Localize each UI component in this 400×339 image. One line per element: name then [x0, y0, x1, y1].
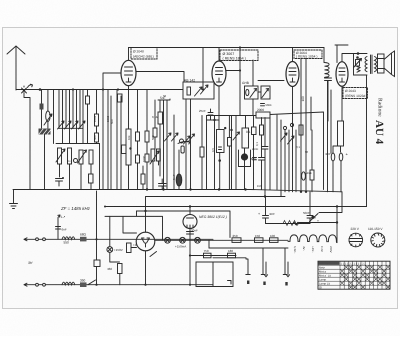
dial selector 220V	[349, 233, 363, 247]
table row lines	[318, 265, 390, 285]
tuning gang capacitor section 1 plates	[59, 90, 70, 144]
node	[117, 88, 119, 90]
wire column x306	[305, 59, 307, 192]
resistor grid V1	[122, 145, 127, 154]
transformer tap mark	[228, 281, 232, 285]
transformer core	[371, 55, 373, 74]
lamp scale 1	[165, 237, 171, 243]
wire column x214	[214, 116, 216, 190]
wire V1 anode to rail	[128, 48, 130, 61]
node	[189, 205, 191, 207]
terminal circle a	[36, 238, 39, 241]
wire column x327	[327, 81, 329, 192]
resistor 500 column x147 upper	[145, 131, 149, 142]
coil column x137 lower	[136, 155, 140, 163]
wire ant coupling	[24, 93, 30, 190]
wire chassis bus 1	[13, 190, 342, 192]
node	[189, 284, 191, 286]
trimmer arrow AB142 b	[201, 85, 209, 94]
trimmer arrow box B	[262, 89, 269, 98]
dial selector 110-150V	[371, 233, 385, 247]
lamp scale 3	[195, 237, 201, 243]
resistor heater bus 100	[270, 238, 279, 243]
connection table frame	[318, 261, 390, 289]
wire column x167	[166, 100, 168, 190]
node	[336, 205, 338, 207]
capacitor C-ant trimmer X	[22, 86, 27, 93]
trimmer arrow L-ant	[44, 114, 52, 125]
node	[102, 88, 104, 90]
wire filter link	[266, 223, 311, 225]
terminal circle c	[36, 283, 39, 286]
pin terminal a	[246, 274, 250, 276]
node loop	[356, 56, 359, 59]
knob dot	[241, 153, 248, 160]
trimmer arrow gang 2	[65, 121, 72, 129]
wire IF2 to bus	[81, 164, 91, 190]
wire column x231	[231, 116, 233, 190]
table column lines	[340, 261, 386, 289]
wire column x331	[330, 90, 332, 153]
coil inside box A	[246, 89, 249, 95]
node	[264, 195, 266, 197]
wire can to bus	[219, 153, 221, 190]
resistor x253	[252, 127, 257, 135]
trimmer arrow tone	[354, 59, 362, 68]
trimmer arrow x190	[188, 134, 195, 142]
switch heater	[150, 252, 157, 257]
wire column x160	[159, 100, 161, 176]
resistor 350 bottom	[80, 282, 87, 287]
node	[189, 254, 191, 256]
arrow agc	[178, 141, 190, 144]
resistor column x155	[153, 128, 157, 137]
pot bracket	[239, 150, 251, 167]
trimmer arrow IF2	[78, 150, 87, 163]
node	[244, 188, 246, 190]
wire to fuse corner	[270, 112, 324, 190]
resistor anode V1	[126, 129, 131, 165]
wire pin feed	[213, 258, 248, 275]
coil IF2 primary	[79, 150, 83, 164]
wire volume to bus	[245, 116, 246, 190]
socket dot c	[285, 282, 287, 286]
wire rect top feed	[137, 211, 231, 238]
wire heater tap	[105, 211, 163, 240]
wire input coil drops	[42, 90, 54, 144]
transformer primary coil	[365, 57, 367, 72]
node bus3 left	[104, 206, 106, 208]
wire gang section link	[59, 127, 83, 129]
label box V1	[131, 48, 157, 60]
capacitor 20nF barretter	[187, 232, 194, 235]
wire column x121	[120, 96, 122, 190]
resistor 0.1M x261	[260, 125, 264, 135]
wire LS stub	[58, 215, 60, 239]
node	[239, 46, 241, 48]
wire heater secondary	[190, 240, 236, 255]
tube V4 electrodes	[339, 68, 345, 82]
node	[129, 147, 131, 149]
wire mid distribution	[207, 115, 257, 117]
wire osc coil	[96, 90, 98, 144]
wire tap line	[209, 247, 288, 249]
coil IF3 secondary	[157, 149, 161, 161]
node grid cap2	[290, 123, 293, 126]
trimmer arrow gang 4	[79, 121, 86, 129]
resistor tone	[356, 60, 360, 67]
bandfilter box A	[245, 86, 259, 99]
wire V4 anode to output	[342, 54, 354, 62]
node	[144, 210, 146, 212]
node output junction	[357, 52, 360, 55]
wire input bus	[28, 89, 203, 91]
speaker cone	[384, 51, 395, 77]
capacitor electrolytic 4mF b	[339, 153, 343, 161]
terminal circle d	[43, 283, 46, 286]
wire heater chain	[155, 239, 213, 241]
resistor x301	[299, 125, 303, 135]
wire bandfilter link	[253, 60, 261, 116]
trimmer arrow x174	[172, 133, 179, 141]
label box V4	[343, 88, 368, 99]
dial 110 teeth	[371, 233, 385, 247]
trimmer arrow IF1	[56, 149, 65, 162]
wire V4 grid stub	[335, 45, 348, 63]
wire column x296	[295, 130, 297, 192]
node	[95, 284, 97, 286]
lamp pilot left	[107, 247, 113, 253]
trimmer disc	[180, 139, 184, 143]
wire caps to bus	[333, 146, 341, 192]
capacitor electrolytic 4mF c	[302, 172, 306, 180]
wire V3 grid lead	[258, 80, 284, 82]
trimmer arrow x186	[184, 136, 191, 144]
lamp cross	[181, 238, 185, 242]
wire V3 anode to rail	[292, 48, 294, 62]
pin pair c	[283, 248, 289, 277]
node C-ant	[23, 89, 25, 91]
wire can leads	[178, 150, 180, 190]
tube V1 envelope	[121, 60, 136, 85]
plate load loop	[354, 54, 368, 76]
resistor 68ohm top	[80, 237, 87, 242]
wire lamp feed	[110, 216, 120, 262]
pin pair b	[261, 248, 267, 277]
node	[300, 191, 302, 193]
coil IF2 secondary	[89, 150, 93, 164]
wire column x270	[269, 118, 271, 190]
socket dot a	[247, 281, 249, 285]
wire top HT rail	[129, 47, 325, 49]
capacitor 20nF x261	[259, 158, 265, 190]
wire column x236	[235, 116, 237, 190]
wire speaker return	[366, 75, 368, 207]
wire V1 grid lead	[136, 72, 184, 83]
wire IF3 down	[153, 161, 159, 190]
coil column x137 upper	[136, 132, 140, 141]
resistor 2000	[256, 112, 270, 118]
wire column x311	[310, 97, 312, 130]
wire resistor to cap	[340, 146, 342, 152]
node	[95, 238, 97, 240]
node	[218, 159, 221, 162]
trimmer arrow x167	[165, 133, 172, 141]
wire column x155	[154, 100, 156, 149]
trimmer arrow x236	[233, 132, 240, 140]
coil core blob	[39, 129, 51, 135]
resistor 750b	[204, 253, 212, 258]
lamp cross	[196, 238, 200, 242]
switch mains	[88, 280, 96, 285]
curved arrow ant	[28, 84, 33, 87]
capacitor electrolytic left	[56, 179, 63, 187]
wire column x117	[116, 90, 118, 190]
wire column x289	[288, 130, 290, 192]
wire column x261	[261, 118, 263, 158]
wire column x253	[253, 116, 255, 190]
node	[213, 119, 215, 121]
tube V2 electrodes	[216, 68, 223, 83]
tube V3 envelope	[286, 62, 299, 87]
trimmer arrow x290	[288, 136, 295, 144]
tube V1 electrodes	[125, 67, 133, 82]
resistor x202	[200, 147, 204, 157]
wire selector riser	[336, 207, 338, 243]
capacitor small x254	[253, 158, 257, 160]
wire antenna lead	[16, 89, 33, 91]
node	[62, 177, 64, 179]
wire V4 cathode down	[341, 86, 343, 121]
wire V3 cathode down	[292, 87, 294, 192]
resistor ant	[40, 104, 44, 110]
label box V2	[220, 50, 258, 61]
resistor 180	[228, 253, 236, 258]
node	[239, 69, 241, 71]
coil core hatch	[39, 129, 51, 135]
wire 5nF branch	[158, 99, 170, 100]
wire column x147	[146, 90, 148, 190]
resistor top x119	[118, 94, 123, 102]
wire grid cap tube V1	[103, 73, 121, 90]
ground lead	[13, 190, 15, 204]
wire choke top	[323, 48, 325, 63]
bandfilter box B	[261, 86, 270, 99]
resistor surge	[127, 243, 132, 253]
capacitor electrolytic 4mF a	[331, 153, 335, 161]
wire column x202	[201, 116, 203, 190]
node	[146, 188, 148, 190]
dial 220V ticks	[351, 233, 361, 247]
rectifier tube envelope	[136, 232, 155, 251]
lamp cross	[108, 248, 112, 252]
wire chassis bus 3	[105, 206, 367, 208]
coil L-ant	[46, 111, 50, 121]
coil 550 bottom	[62, 282, 75, 285]
capacitor 25nF V2	[208, 109, 213, 120]
wire IF1 to bus	[60, 164, 70, 190]
ground	[10, 204, 18, 209]
speaker magnet poles	[378, 59, 385, 69]
wire x143	[142, 166, 144, 190]
socket dot b	[263, 282, 265, 286]
label box V3	[294, 50, 322, 59]
wire switch line	[299, 222, 337, 224]
wire rail drop x203	[202, 48, 204, 90]
resistor dropper x96	[94, 260, 100, 267]
wire column x281	[280, 120, 282, 197]
node	[230, 129, 232, 131]
wire V2 anode to rail	[218, 48, 220, 62]
trimmer cap 8+7	[74, 159, 78, 163]
coil assembly box AB142	[183, 82, 214, 99]
trimmer arrow gang 3	[72, 121, 79, 129]
tube V3 electrodes	[289, 68, 296, 82]
wire rectifier stub	[145, 211, 147, 232]
wire column x301	[300, 59, 302, 192]
wire screen drop x240	[239, 48, 241, 116]
fuse wiggle	[293, 222, 299, 225]
wire dropper to bottom	[96, 267, 98, 285]
tuning gang capacitor section 2 plates	[73, 90, 83, 144]
capacitor electrolytic x160	[159, 179, 167, 190]
rectifier electrodes	[142, 238, 150, 247]
coil IF1 secondary	[68, 148, 72, 164]
capacitor can 5mF	[176, 174, 182, 186]
node	[336, 221, 338, 223]
wire rectifier cathode down	[145, 251, 147, 285]
capacitor 6nF	[56, 227, 61, 230]
node gang top	[72, 88, 74, 90]
trimmer arrow x283	[281, 133, 288, 141]
resistor cathode V4	[338, 121, 344, 146]
wire bus1 right corner	[319, 192, 342, 213]
wire column x103	[102, 90, 104, 190]
table header cell	[318, 262, 339, 265]
wire dropper x96	[96, 191, 98, 260]
wire cathode branch	[207, 119, 220, 121]
table X marks row1	[341, 266, 390, 289]
resistor filter zigzag	[283, 221, 299, 226]
wire column x186	[185, 99, 187, 190]
coil osc secondary	[95, 133, 99, 142]
coil IF1 primary	[58, 148, 62, 164]
wire V2 cathode down	[218, 86, 220, 130]
wire column x174	[173, 115, 175, 190]
wire mains bus top	[24, 238, 213, 241]
wire V1 cathode down	[128, 86, 130, 129]
wire mains bus bottom	[24, 283, 213, 286]
wire choke to cap	[326, 77, 328, 121]
wire column x229	[228, 116, 230, 190]
capacitor 25nF x265	[262, 147, 268, 150]
resistor heater bus 150	[255, 238, 264, 243]
wire heater bus right	[213, 239, 288, 241]
wire barretter top	[189, 207, 191, 215]
resistor x312	[310, 170, 314, 180]
terminal circle b	[43, 238, 46, 241]
wire gang bottom rail	[56, 143, 100, 145]
voltage selector winding	[288, 235, 337, 243]
speaker magnet	[378, 54, 385, 73]
barretter envelope	[183, 215, 197, 229]
switch mains pivot	[311, 216, 314, 219]
wire 460 to bus	[119, 274, 121, 285]
barretter pins	[187, 218, 194, 228]
wire resistor to bus	[90, 183, 92, 190]
resistor x229	[228, 138, 232, 147]
wire surge stub	[131, 247, 137, 249]
coil can IF	[217, 130, 225, 153]
resistor x143	[141, 174, 145, 184]
wire column x111	[110, 96, 112, 190]
wire blob to bus	[44, 135, 46, 190]
node	[144, 284, 146, 286]
capacitor electrolytic HT1	[263, 197, 269, 224]
wire column x190	[190, 99, 192, 190]
node	[162, 188, 164, 190]
node	[224, 127, 226, 129]
dial 220V slot	[349, 239, 362, 242]
wire chassis bus 2	[146, 197, 286, 212]
wire column x312	[311, 130, 313, 192]
resistor 0.1M	[158, 112, 163, 124]
resistor 1k	[89, 174, 94, 183]
wire resistor column	[87, 90, 89, 144]
zigzag resistor tone2	[357, 67, 360, 73]
node input junction	[39, 88, 42, 91]
resistor column x147 lower	[145, 154, 149, 162]
resistor heater bus 250	[232, 238, 241, 243]
trimmer arrow IF3	[150, 151, 159, 164]
coil inside AB142	[187, 87, 191, 95]
transformer secondary coil	[375, 57, 377, 72]
coil IF3 primary	[151, 149, 155, 161]
wire barretter bottom	[189, 229, 191, 285]
wire column x265	[264, 118, 266, 197]
lamp cross	[166, 238, 170, 242]
wire column x99	[99, 144, 101, 190]
power transformer box	[196, 262, 233, 287]
switch mains lever	[310, 214, 319, 222]
antenna	[7, 46, 25, 90]
volume control box	[242, 128, 249, 148]
node	[218, 188, 220, 190]
trimmer arrow AB142 a	[195, 87, 203, 96]
wire V1 resistor to bus	[128, 165, 130, 190]
wire column x206	[206, 116, 208, 190]
capacitor 50nF top	[261, 104, 265, 106]
wire V2 screen lead	[226, 70, 240, 72]
wire column x285	[284, 130, 286, 192]
node	[305, 191, 307, 193]
coil RF choke	[325, 63, 330, 78]
wire column x277	[276, 115, 278, 190]
wire column x137	[137, 90, 139, 190]
lamp scale 2	[180, 237, 186, 243]
resistor top left column	[86, 96, 90, 104]
capacitor choke bottom	[325, 78, 332, 81]
node	[189, 188, 191, 190]
resistor 460	[118, 264, 123, 274]
node grid cap	[283, 126, 286, 129]
wire heater loop	[123, 217, 137, 234]
wire column x108	[107, 90, 109, 190]
capacitor electrolytic HT2	[307, 192, 313, 224]
wire column x163	[163, 100, 165, 190]
coil 550 top	[62, 237, 75, 240]
tube V2 envelope	[212, 61, 226, 86]
